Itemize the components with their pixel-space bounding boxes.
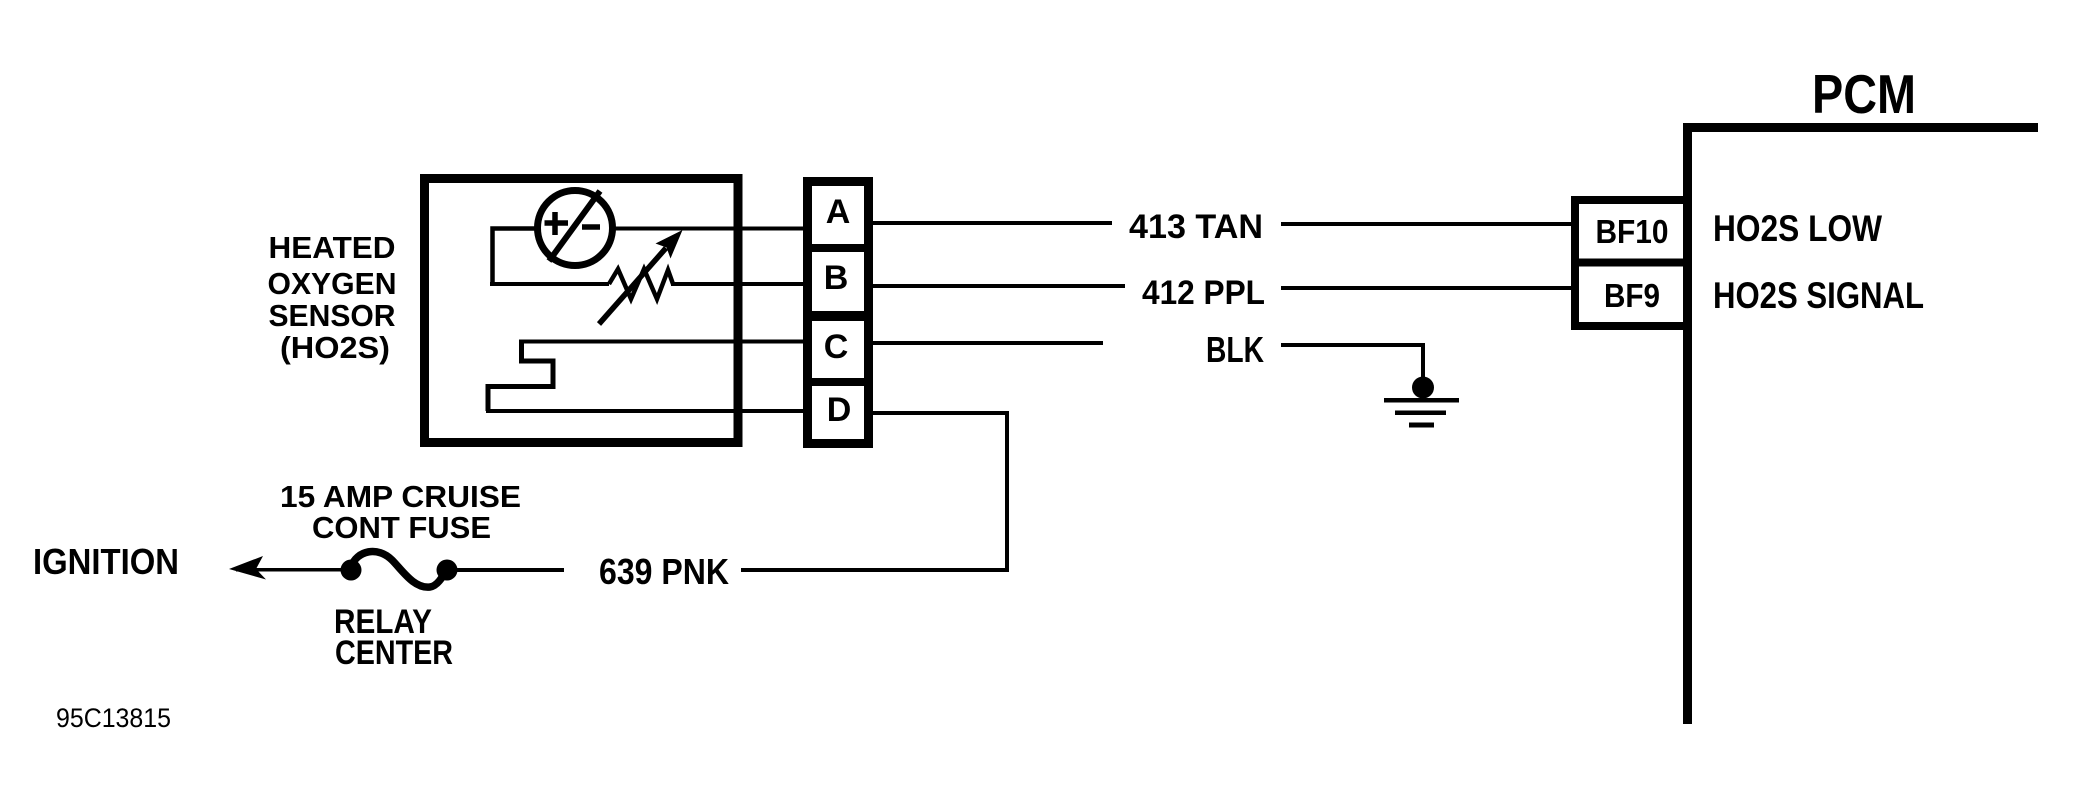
minus sign xyxy=(582,224,600,230)
circle slash xyxy=(549,191,600,261)
connector divider A/B xyxy=(812,244,864,252)
ground bar 1 xyxy=(1384,398,1459,403)
ground bar 3 xyxy=(1409,423,1434,428)
svg-text:CONT FUSE: CONT FUSE xyxy=(312,510,491,545)
wire D out of connector xyxy=(873,411,1009,415)
ground bar 2 xyxy=(1395,411,1446,416)
wire 639 PNK right horizontal xyxy=(741,568,1009,572)
svg-text:HEATED: HEATED xyxy=(269,230,396,265)
svg-text:HO2S LOW: HO2S LOW xyxy=(1713,208,1882,249)
BF divider xyxy=(1579,259,1684,267)
connector box ABCD xyxy=(808,182,869,444)
heated oxygen sensor label xyxy=(268,230,397,365)
wire 413 TAN left segment xyxy=(873,221,1112,225)
fuse right terminal dot xyxy=(437,560,458,581)
wire 639 PNK vertical drop xyxy=(1005,411,1009,572)
connector divider B/C xyxy=(812,311,864,321)
wire 413 TAN right segment xyxy=(1281,222,1571,226)
PCM top edge xyxy=(1683,123,2038,132)
wire 412 PPL left segment xyxy=(873,284,1125,288)
connector divider C/D xyxy=(812,378,864,386)
wire circle left loop xyxy=(493,229,539,285)
svg-text:BF10: BF10 xyxy=(1596,213,1669,250)
sensor HO2S box xyxy=(425,179,739,443)
wire D to connector xyxy=(486,409,803,413)
wire BLK right segment xyxy=(1281,345,1423,380)
svg-text:BF9: BF9 xyxy=(1604,277,1660,314)
fuse left terminal dot xyxy=(341,560,362,581)
ground dot xyxy=(1412,377,1434,399)
plus sign xyxy=(545,212,569,235)
PCM terminal box BF10/BF9 xyxy=(1575,200,1688,326)
wire B left segment xyxy=(490,282,609,286)
wire BLK left segment xyxy=(873,341,1103,345)
svg-text:HO2S SIGNAL: HO2S SIGNAL xyxy=(1713,275,1924,316)
svg-text:OXYGEN: OXYGEN xyxy=(268,266,397,301)
svg-text:BLK: BLK xyxy=(1206,329,1264,370)
svg-text:B: B xyxy=(824,259,849,297)
svg-text:D: D xyxy=(827,391,852,429)
svg-text:413 TAN: 413 TAN xyxy=(1129,208,1263,246)
svg-text:(HO2S): (HO2S) xyxy=(280,330,390,365)
wire C to connector xyxy=(519,340,803,344)
wire fuse to 639 PNK xyxy=(447,568,564,572)
resistor zigzag R1 xyxy=(609,269,673,299)
PCM left edge xyxy=(1683,123,1692,724)
ignition arrowhead xyxy=(229,556,266,580)
wire B from zigzag to connector xyxy=(671,282,803,286)
svg-text:95C13815: 95C13815 xyxy=(56,703,171,733)
wire ignition arrow shaft xyxy=(236,568,352,572)
svg-text:SENSOR: SENSOR xyxy=(269,298,396,333)
svg-text:A: A xyxy=(826,193,851,231)
svg-text:15 AMP CRUISE: 15 AMP CRUISE xyxy=(280,479,521,514)
svg-text:639 PNK: 639 PNK xyxy=(599,551,729,592)
wire pin A from circle to connector xyxy=(612,227,803,231)
svg-text:C: C xyxy=(824,328,849,366)
fuse F1 element xyxy=(351,552,447,588)
svg-text:IGNITION: IGNITION xyxy=(33,541,179,582)
variable resistor arrow xyxy=(599,248,666,324)
heater element serpentine xyxy=(488,343,553,411)
svg-text:412 PPL: 412 PPL xyxy=(1142,274,1265,312)
svg-text:CENTER: CENTER xyxy=(335,634,453,672)
thermocell circle U1 xyxy=(538,191,613,266)
wire 412 PPL right segment xyxy=(1281,286,1571,290)
svg-text:PCM: PCM xyxy=(1812,63,1916,125)
